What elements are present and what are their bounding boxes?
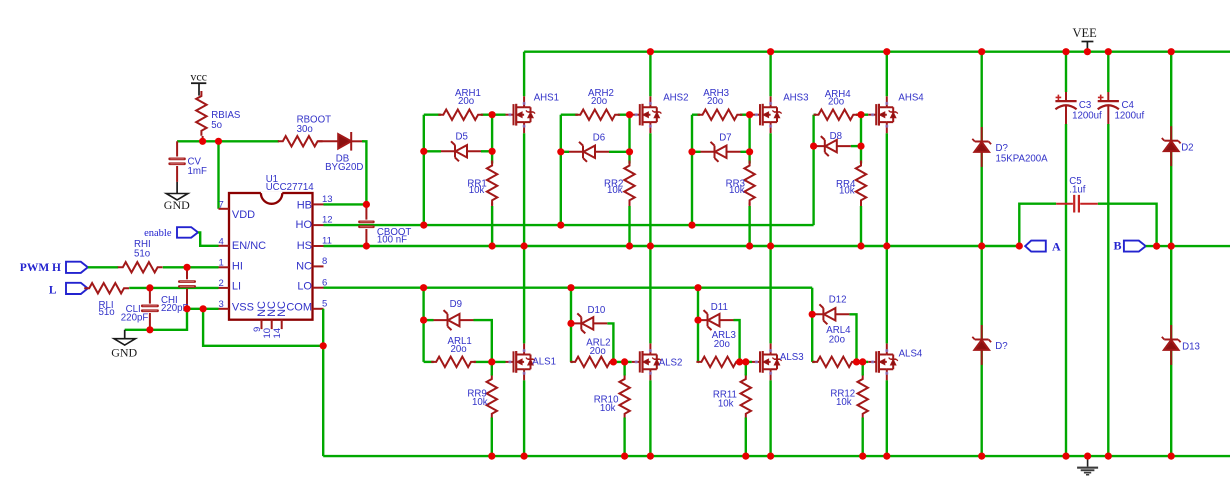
label pin VSS — [232, 301, 254, 313]
junction HO cell2 — [557, 222, 564, 229]
pin 4 EN/NC stub — [219, 236, 230, 247]
wire AHS1 source to HS — [523, 133, 525, 246]
svg-text:20o: 20o — [828, 96, 844, 107]
wire ALS1 drain up — [523, 246, 525, 343]
wire VEE top rail — [524, 51, 1230, 53]
svg-text:D7: D7 — [719, 133, 731, 144]
label RBOOT value — [297, 114, 332, 135]
svg-text:AHS3: AHS3 — [783, 93, 808, 104]
wire LO rail — [324, 287, 813, 289]
svg-text:10k: 10k — [718, 398, 734, 409]
svg-text:3: 3 — [219, 299, 224, 310]
label ARL4 value — [826, 325, 851, 345]
power flag vcc — [190, 70, 207, 96]
label D? bottom — [995, 341, 1008, 352]
svg-text:AHS1: AHS1 — [534, 93, 559, 104]
label pin NC9 rotated — [256, 301, 268, 317]
resistor ARL4 — [812, 357, 857, 367]
junction rail source ALS1 — [521, 453, 528, 460]
junction TVS top rail — [978, 48, 985, 55]
svg-text:5o: 5o — [211, 120, 222, 131]
label pin HI — [232, 261, 243, 273]
svg-text:D?: D? — [995, 341, 1008, 352]
wire enable to pin4 — [198, 232, 219, 245]
resistor RR2 — [624, 161, 634, 206]
label pin NC10 rotated — [266, 301, 278, 317]
label RR9 value — [467, 389, 487, 408]
resistor ARH3 — [698, 110, 743, 120]
resistor RR4 — [856, 161, 866, 206]
resistor ARL1 — [431, 357, 476, 367]
svg-text:ALS4: ALS4 — [899, 349, 923, 360]
svg-text:UCC27714: UCC27714 — [266, 182, 315, 193]
svg-text:10k: 10k — [836, 397, 852, 408]
label RR10 value — [594, 395, 619, 415]
wire ALS3 source down — [769, 380, 771, 456]
label RR11 value — [713, 389, 737, 409]
wire D2 column — [1170, 52, 1172, 246]
label CHI value — [161, 295, 189, 314]
junction gate AHS1 — [489, 111, 496, 118]
junction HS source AHS2 — [647, 242, 654, 249]
junction TVS bottom rail — [978, 453, 985, 460]
junction D12 left — [809, 311, 816, 318]
svg-text:VSS: VSS — [232, 301, 254, 313]
transistor AHS3 — [752, 96, 782, 133]
capacitor C3 — [1055, 52, 1076, 456]
svg-text:enable: enable — [144, 228, 172, 239]
svg-text:GND: GND — [111, 346, 137, 360]
wire pin5 COM down — [322, 309, 324, 456]
label AHS4 — [898, 93, 924, 104]
wire RR4 to HS — [860, 203, 862, 247]
svg-text:D10: D10 — [588, 305, 606, 316]
svg-text:A: A — [1052, 239, 1061, 253]
label RR12 value — [830, 389, 855, 408]
junction LO cell1 — [420, 284, 427, 291]
pin 6 LO stub — [313, 277, 328, 288]
wire ALS1 source down — [523, 380, 525, 456]
wire AHS3 drain — [769, 52, 771, 96]
svg-text:20o: 20o — [829, 334, 845, 345]
junction rail source ALS4 — [883, 453, 890, 460]
junction gate AHS4 — [857, 111, 864, 118]
wire RR9 to ground rail — [491, 418, 493, 457]
wire diode row cell2 low — [571, 323, 613, 362]
label RR4 value — [836, 179, 856, 196]
junction C4 bottom rail — [1105, 453, 1112, 460]
transistor AHS1 — [506, 96, 536, 133]
diode D11 — [699, 310, 734, 330]
svg-text:HS: HS — [297, 240, 312, 252]
svg-text:D5: D5 — [456, 131, 468, 142]
junction HS RR4 — [857, 242, 864, 249]
wire AHS4 left rail — [812, 115, 814, 225]
pin 11 HS stub — [313, 236, 332, 247]
transistor ALS2 — [632, 343, 662, 380]
wire ALS3 left rail — [697, 288, 699, 362]
pin 3 VSS stub — [219, 299, 230, 310]
wire DB to HB — [362, 141, 366, 204]
svg-text:8: 8 — [322, 256, 327, 267]
junction rail source ALS2 — [647, 453, 654, 460]
capacitor CLI — [141, 288, 159, 330]
junction D7 left — [688, 148, 695, 155]
label RR2 value — [604, 179, 623, 196]
wire D13 column — [1170, 246, 1172, 456]
resistor RR12 — [858, 362, 868, 419]
label ALS3 — [780, 352, 804, 363]
diode D13 — [1162, 325, 1181, 365]
label D11 — [711, 302, 728, 313]
label ARL2 value — [586, 338, 610, 357]
pin 9 stub bottom — [252, 320, 263, 332]
resistor ARH1 — [438, 110, 483, 120]
label ARH2 value — [588, 88, 614, 107]
label D? 15KPA200A — [996, 143, 1049, 164]
wire VDD vertical to pin7 — [217, 141, 219, 209]
label pin NC14 rotated — [276, 301, 288, 317]
wire ALS4 source down — [886, 380, 888, 456]
svg-text:C4: C4 — [1122, 100, 1135, 111]
diode D5 — [441, 141, 481, 161]
label pin NC — [296, 261, 312, 273]
label D5 — [456, 131, 468, 142]
resistor RR9 — [487, 362, 497, 419]
junction D8 left — [810, 143, 817, 150]
svg-text:51o: 51o — [134, 249, 150, 260]
junction gate diode ALS2 — [610, 358, 617, 365]
label RHI value — [134, 239, 151, 260]
svg-text:ALS3: ALS3 — [780, 352, 804, 363]
junction TVS HS — [978, 242, 985, 249]
svg-text:NC: NC — [296, 261, 312, 273]
junction VEE drain AHS4 — [883, 48, 890, 55]
label D7 — [719, 133, 731, 144]
label AHS3 — [783, 93, 808, 104]
svg-text:B: B — [1113, 238, 1121, 252]
junction rail RR11 — [742, 453, 749, 460]
wire diode row cell4 low — [812, 314, 856, 362]
resistor RBIAS — [196, 91, 206, 136]
port enable — [144, 227, 198, 239]
svg-text:HO: HO — [296, 219, 313, 231]
svg-text:D11: D11 — [711, 302, 728, 313]
pin 8 NC stub — [313, 256, 328, 267]
wire gate to RR3 — [748, 115, 750, 164]
label RLI value — [99, 300, 115, 318]
junction D10 left — [567, 320, 574, 327]
svg-text:ALS1: ALS1 — [532, 357, 556, 368]
capacitor CBOOT — [358, 204, 375, 246]
svg-text:1mF: 1mF — [188, 166, 207, 177]
transistor AHS2 — [632, 96, 662, 133]
wire CHI-CLI ground run — [125, 309, 187, 330]
junction D5 left — [420, 148, 427, 155]
junction VEE tap — [1084, 48, 1091, 55]
svg-text:HI: HI — [232, 261, 243, 273]
wire AHS3 source to HS — [769, 133, 771, 246]
svg-text:11: 11 — [322, 236, 332, 247]
svg-text:4: 4 — [219, 236, 224, 247]
junction D13 bottom rail — [1168, 453, 1175, 460]
svg-text:20o: 20o — [591, 96, 607, 107]
junction HS RR3 — [746, 242, 753, 249]
svg-text:20o: 20o — [590, 346, 606, 357]
svg-text:6: 6 — [322, 277, 327, 288]
svg-text:12: 12 — [322, 215, 333, 226]
wire RR1 to HS — [491, 203, 493, 247]
svg-text:HB: HB — [297, 199, 312, 211]
svg-text:14: 14 — [272, 328, 283, 339]
svg-text:13: 13 — [322, 194, 333, 205]
junction LO cell3 — [694, 284, 701, 291]
wire gate to RR2 — [628, 115, 630, 164]
diode D? bottom TVS — [972, 325, 991, 365]
wire AHS2 drain — [649, 52, 651, 96]
svg-text:10k: 10k — [600, 403, 616, 414]
svg-text:D8: D8 — [830, 131, 842, 142]
junction HO cell3 — [688, 222, 695, 229]
diode D9 — [434, 310, 474, 330]
wire RHI to pin1 — [163, 266, 219, 268]
junction D9 left — [420, 317, 427, 324]
pin 14 stub bottom — [272, 320, 283, 339]
resistor ARL2 — [570, 357, 615, 367]
svg-text:L: L — [49, 285, 57, 297]
junction RBIAS-VDD — [199, 138, 206, 145]
svg-text:VEE: VEE — [1072, 26, 1097, 40]
label pin LI — [232, 280, 241, 292]
wire PWMH to RHI — [88, 266, 119, 268]
junction HI-CHI — [183, 264, 190, 271]
junction D8 right — [857, 143, 864, 150]
junction HB-CBOOT — [363, 201, 370, 208]
svg-text:VDD: VDD — [232, 209, 255, 221]
pin 5 COM stub — [313, 298, 328, 309]
wire AHS1 left rail — [423, 115, 425, 225]
wire AHS1 drain — [523, 52, 525, 96]
svg-text:220pF: 220pF — [121, 313, 149, 324]
junction VSS-CHI — [183, 305, 190, 312]
port PWM H — [20, 262, 88, 274]
junction HS RR1 — [489, 242, 496, 249]
wire ALS2 left rail — [570, 288, 572, 362]
junction D6 left — [557, 148, 564, 155]
svg-text:10k: 10k — [472, 397, 488, 408]
wire AHS2 left rail — [560, 115, 562, 225]
junction rail RR12 — [859, 453, 866, 460]
svg-text:100 nF: 100 nF — [377, 235, 407, 246]
wire diode row cell3 — [692, 151, 750, 153]
wire gate to RR4 — [860, 115, 862, 164]
label CV value — [188, 157, 207, 178]
wire AHS3 left rail — [691, 115, 693, 225]
junction earth tap — [1084, 453, 1091, 460]
junction HS-CBOOT — [363, 242, 370, 249]
wire HO rail — [324, 224, 814, 226]
svg-text:LI: LI — [232, 280, 241, 292]
label ALS2 — [659, 358, 683, 369]
wire RBIAS to VDD node — [202, 136, 204, 141]
junction LI-CLI — [146, 284, 153, 291]
capacitor C4 — [1098, 52, 1119, 456]
wire B net — [1146, 245, 1230, 247]
svg-text:20o: 20o — [458, 96, 474, 107]
svg-text:1200uf: 1200uf — [1072, 110, 1102, 121]
wire pin13 HB — [324, 203, 367, 205]
junction D11 left — [694, 317, 701, 324]
label D12 — [829, 295, 847, 306]
wire RR2 to HS — [629, 203, 631, 247]
wire ALS2 source down — [649, 380, 651, 456]
junction gate RR12 — [859, 358, 866, 365]
pin 13 HB stub — [313, 194, 333, 205]
svg-text:1: 1 — [219, 258, 224, 269]
label RBIAS value — [211, 110, 241, 131]
svg-text:D12: D12 — [829, 295, 847, 306]
label AHS2 — [663, 93, 688, 104]
junction gate AHS2 — [626, 111, 633, 118]
resistor RLI — [84, 283, 129, 293]
wire AHS2 source to HS — [649, 133, 651, 246]
junction gate diode ALS1 — [488, 358, 495, 365]
svg-text:.1uf: .1uf — [1069, 185, 1085, 196]
resistor ARL3 — [696, 357, 741, 367]
svg-text:10k: 10k — [729, 185, 745, 196]
junction rail RR10 — [621, 453, 628, 460]
power flag VEE — [1072, 26, 1097, 52]
svg-text:D6: D6 — [593, 133, 605, 144]
wire diode row cell1 — [424, 150, 492, 152]
transistor AHS4 — [868, 96, 898, 133]
svg-text:30o: 30o — [297, 124, 313, 135]
label CBOOT value — [377, 227, 412, 246]
wire ALS3 drain up — [769, 246, 771, 343]
wire RR3 to HS — [749, 203, 751, 247]
label pin VDD — [232, 209, 255, 221]
svg-text:NC: NC — [276, 301, 288, 317]
junction LO cell2 — [567, 284, 574, 291]
pin 10 stub bottom — [262, 320, 273, 339]
diode D? top TVS — [972, 127, 991, 167]
port A — [1025, 239, 1061, 253]
svg-text:15KPA200A: 15KPA200A — [996, 153, 1049, 164]
junction COM-VSS — [320, 342, 327, 349]
port B — [1113, 238, 1145, 252]
junction HS source AHS1 — [521, 242, 528, 249]
wire diode row cell1 low — [424, 320, 492, 362]
svg-text:7: 7 — [219, 199, 224, 210]
junction A port — [1016, 242, 1023, 249]
wire VDD node horizontal — [177, 140, 279, 142]
svg-text:20o: 20o — [714, 339, 730, 350]
port L — [49, 283, 88, 297]
wire gate row cell2 low — [571, 361, 632, 363]
label C4 value — [1115, 100, 1145, 122]
label ARH4 value — [825, 89, 851, 108]
svg-text:ALS2: ALS2 — [659, 358, 683, 369]
label CLI value — [121, 304, 149, 323]
junction C3 bottom rail — [1062, 453, 1069, 460]
junction HS RR2 — [626, 242, 633, 249]
resistor ARH2 — [575, 110, 620, 120]
label pin EN/NC — [232, 240, 266, 252]
svg-text:EN/NC: EN/NC — [232, 240, 266, 252]
pin 1 HI stub — [219, 258, 230, 269]
wire AHS4 drain — [886, 52, 888, 96]
label DB value — [325, 154, 363, 173]
diode D10 — [572, 313, 607, 333]
svg-text:PWM H: PWM H — [20, 262, 61, 274]
wire ALS4 left rail — [811, 288, 813, 362]
junction VDD drop — [215, 138, 222, 145]
diode D2 — [1162, 126, 1181, 166]
label C3 value — [1072, 100, 1102, 122]
junction D5 right — [489, 148, 496, 155]
svg-text:10k: 10k — [839, 186, 855, 197]
wire gate to RR1 — [491, 115, 493, 164]
svg-text:D13: D13 — [1182, 342, 1200, 353]
junction VSS branch — [200, 305, 207, 312]
capacitor CV — [168, 141, 186, 182]
label RR3 value — [726, 179, 745, 196]
pin 12 HO stub — [313, 215, 333, 226]
junction C3 top rail — [1062, 48, 1069, 55]
wire TVS top column — [981, 52, 983, 246]
ground GND left-bottom — [111, 330, 137, 360]
wire gate row cell3 low — [698, 361, 752, 363]
wire RLI to pin2 — [129, 287, 218, 289]
junction HS source AHS4 — [883, 242, 890, 249]
diode D8 — [815, 136, 851, 156]
transistor ALS1 — [506, 343, 536, 380]
label ALS4 — [899, 349, 923, 360]
junction rail source ALS3 — [767, 453, 774, 460]
resistor RR10 — [619, 362, 629, 419]
diode D6 — [569, 142, 609, 162]
label U1 UCC27714 — [266, 174, 315, 193]
wire diode row cell2 — [561, 151, 630, 153]
junction HS source AHS3 — [767, 242, 774, 249]
wire gate row cell1 — [424, 113, 506, 115]
wire C5 branch — [1019, 204, 1156, 246]
label ALS1 — [532, 357, 556, 368]
resistor RR1 — [487, 161, 497, 206]
svg-text:1200uf: 1200uf — [1115, 110, 1145, 121]
op-amp U1 UCC27714 body — [229, 192, 313, 320]
svg-text:AHS4: AHS4 — [898, 93, 924, 104]
label ARL1 value — [448, 336, 472, 355]
svg-text:COM: COM — [286, 301, 312, 313]
label AHS1 — [534, 93, 559, 104]
label pin COM — [286, 301, 312, 313]
wire RR11 to ground rail — [745, 418, 747, 457]
junction gate diode ALS3 — [736, 358, 743, 365]
wire diode row cell3 low — [698, 320, 740, 362]
junction gate diode ALS4 — [853, 358, 860, 365]
wire ALS1 left rail — [422, 288, 424, 362]
label D10 — [588, 305, 606, 316]
wire gate row cell2 — [561, 113, 632, 115]
diode D7 — [701, 142, 741, 162]
ground earth symbol — [1077, 456, 1098, 475]
pin 2 LI stub — [219, 278, 230, 289]
junction D7 right — [746, 148, 753, 155]
label ARH1 value — [455, 88, 481, 107]
junction rail RR9 — [488, 453, 495, 460]
label pin LO — [297, 280, 312, 292]
